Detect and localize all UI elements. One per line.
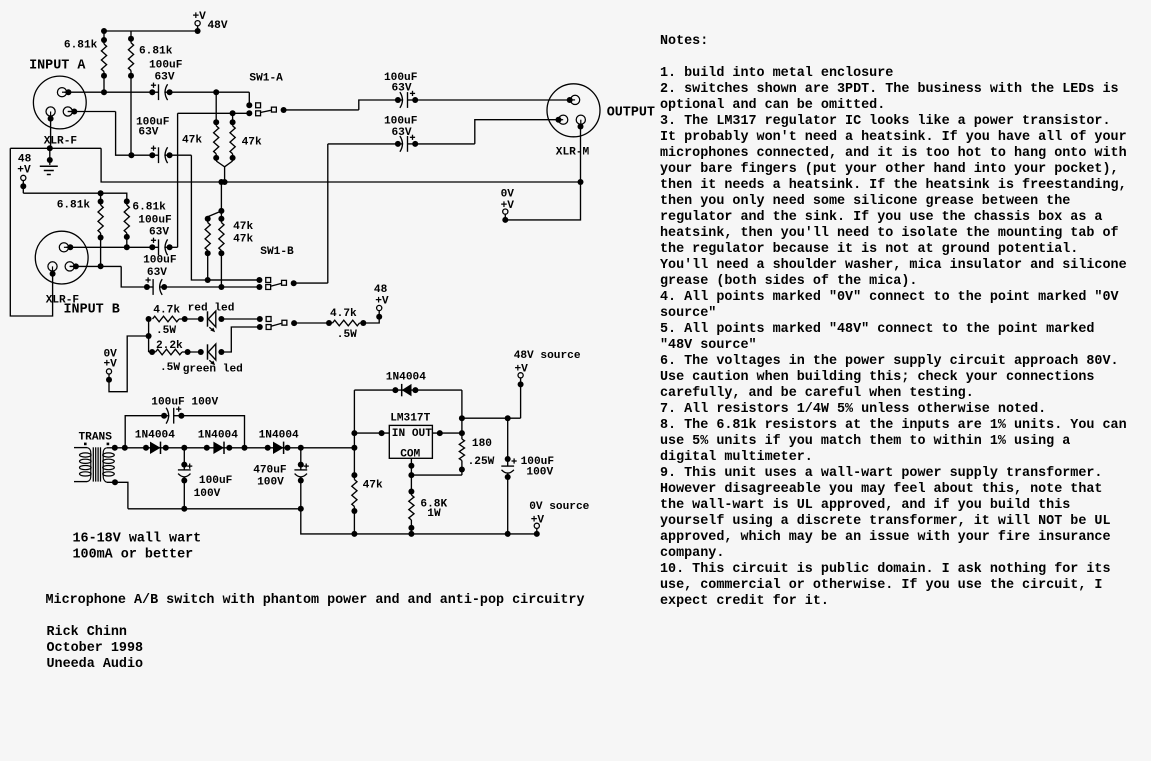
svg-text:grease (both sides of the mica: grease (both sides of the mica).: [660, 274, 917, 289]
svg-text:.5W: .5W: [156, 325, 176, 337]
svg-text:63V: 63V: [149, 226, 169, 238]
svg-text:+V: +V: [193, 11, 207, 23]
svg-text:48V: 48V: [208, 20, 228, 32]
svg-text:100V: 100V: [526, 466, 553, 478]
svg-text:+V: +V: [515, 363, 529, 375]
svg-text:yourself using a discrete tran: yourself using a discrete transformer, i…: [660, 514, 1111, 529]
svg-text:XLR-M: XLR-M: [556, 146, 590, 158]
svg-text:SW1-B: SW1-B: [260, 246, 294, 258]
svg-text:180: 180: [472, 438, 492, 450]
svg-text:LM317T: LM317T: [390, 413, 430, 425]
svg-text:100mA or better: 100mA or better: [73, 548, 194, 563]
svg-text:8. The 6.81k resistors at the: 8. The 6.81k resistors at the inputs are…: [660, 418, 1127, 433]
svg-text:"48V source": "48V source": [660, 338, 757, 353]
svg-text:+V: +V: [375, 296, 389, 308]
svg-text:COM: COM: [400, 448, 420, 460]
svg-text:then you only need some silico: then you only need some silicone grease …: [660, 194, 1070, 209]
svg-text:47k: 47k: [182, 135, 202, 147]
svg-text:4. All points marked "0V" conn: 4. All points marked "0V" connect to the…: [660, 290, 1120, 305]
svg-text:OUTPUT: OUTPUT: [607, 106, 655, 121]
svg-text:your bare fingers (put your ot: your bare fingers (put your other hand i…: [660, 162, 1119, 177]
svg-text:microphones connected, and it: microphones connected, and it is too hot…: [660, 146, 1127, 161]
svg-text:0V source: 0V source: [529, 501, 589, 513]
svg-text:100uF: 100uF: [384, 116, 418, 128]
svg-text:+V: +V: [17, 164, 31, 176]
svg-text:100uF 100V: 100uF 100V: [151, 397, 218, 409]
svg-text:48V source: 48V source: [514, 350, 581, 362]
svg-text:optional and can be omitted.: optional and can be omitted.: [660, 98, 885, 113]
svg-text:Uneeda Audio: Uneeda Audio: [47, 657, 144, 672]
svg-text:source": source": [660, 306, 716, 321]
svg-text:TRANS: TRANS: [79, 431, 113, 443]
svg-text:1N4004: 1N4004: [198, 429, 238, 441]
svg-text:5. All points marked "48V" con: 5. All points marked "48V" connect to th…: [660, 322, 1094, 337]
svg-text:Microphone A/B switch with pha: Microphone A/B switch with phantom power…: [46, 593, 585, 608]
svg-text:.5W: .5W: [160, 362, 180, 374]
svg-text:100uF: 100uF: [199, 475, 233, 487]
svg-text:6.81k: 6.81k: [64, 39, 98, 51]
svg-text:6.81k: 6.81k: [139, 46, 173, 58]
svg-text:47k: 47k: [233, 234, 253, 246]
svg-text:4.7k: 4.7k: [330, 308, 357, 320]
svg-text:0V: 0V: [501, 189, 515, 201]
svg-text:green led: green led: [183, 364, 243, 376]
svg-text:the regulator because it is no: the regulator because it is not at groun…: [660, 242, 1078, 257]
svg-text:INPUT A: INPUT A: [29, 58, 86, 73]
svg-text:100V: 100V: [257, 476, 284, 488]
svg-text:regulator and the sink. If you: regulator and the sink. If you use the c…: [660, 210, 1102, 225]
svg-text:6.81k: 6.81k: [132, 201, 166, 213]
svg-text:63V: 63V: [147, 267, 167, 279]
svg-text:digital multimeter.: digital multimeter.: [660, 450, 813, 465]
svg-text:heatsink, then you'll need to: heatsink, then you'll need to isolate th…: [660, 226, 1119, 241]
svg-text:100uF: 100uF: [149, 60, 183, 72]
svg-text:SW1-A: SW1-A: [249, 73, 283, 85]
svg-text:approved, which may be an issu: approved, which may be an issue with you…: [660, 530, 1111, 545]
svg-text:47k: 47k: [242, 136, 262, 148]
svg-text:2. switches shown are 3PDT. Th: 2. switches shown are 3PDT. The business…: [660, 82, 1119, 97]
svg-text:then it needs a heatsink. If t: then it needs a heatsink. If the heatsin…: [660, 178, 1127, 193]
svg-text:Use caution when building this: Use caution when building this; check yo…: [660, 370, 1094, 385]
svg-text:47k: 47k: [363, 479, 383, 491]
svg-text:XLR-F: XLR-F: [44, 135, 78, 147]
svg-text:1. build into metal enclosure: 1. build into metal enclosure: [660, 66, 893, 81]
svg-text:It probably won't need a heats: It probably won't need a heatsink. If yo…: [660, 130, 1127, 145]
svg-text:+V: +V: [501, 200, 515, 212]
svg-text:47k: 47k: [233, 221, 253, 233]
svg-text:48: 48: [374, 284, 388, 296]
svg-text:1N4004: 1N4004: [135, 429, 175, 441]
svg-text:7. All resistors 1/4W 5% unles: 7. All resistors 1/4W 5% unless otherwis…: [660, 402, 1046, 417]
svg-text:red led: red led: [188, 302, 235, 314]
svg-text:carefully, and be careful when: carefully, and be careful when testing.: [660, 386, 974, 401]
svg-text:2.2k: 2.2k: [156, 340, 183, 352]
svg-text:1N4004: 1N4004: [386, 371, 426, 383]
svg-text:100uF: 100uF: [143, 255, 177, 267]
svg-text:use, commercial or otherwise.: use, commercial or otherwise. If you use…: [660, 578, 1102, 593]
svg-text:63V: 63V: [392, 127, 412, 139]
svg-text:1N4004: 1N4004: [259, 429, 299, 441]
svg-text:4.7k: 4.7k: [153, 305, 180, 317]
svg-text:6.81k: 6.81k: [57, 199, 91, 211]
svg-text:9. This unit uses a wall-wart: 9. This unit uses a wall-wart power supp…: [660, 466, 1102, 481]
svg-text:63V: 63V: [392, 83, 412, 95]
svg-text:3. The LM317 regulator IC look: 3. The LM317 regulator IC looks like a p…: [660, 114, 1111, 129]
svg-text:the wall-wart is UL approved,: the wall-wart is UL approved, and if you…: [660, 498, 1070, 513]
svg-text:63V: 63V: [155, 72, 175, 84]
svg-text:IN OUT: IN OUT: [392, 428, 432, 440]
svg-text:Notes:: Notes:: [660, 34, 708, 49]
svg-text:+V: +V: [531, 515, 545, 527]
svg-text:.25W: .25W: [468, 456, 495, 468]
svg-text:100uF: 100uF: [138, 214, 172, 226]
svg-text:company.: company.: [660, 546, 724, 561]
svg-text:However disagreeable you may f: However disagreeable you may feel about …: [660, 482, 1102, 497]
svg-text:6. The voltages in the power s: 6. The voltages in the power supply circ…: [660, 354, 1119, 369]
svg-text:63V: 63V: [138, 126, 158, 138]
svg-text:470uF: 470uF: [253, 464, 287, 476]
svg-text:1W: 1W: [427, 508, 441, 520]
svg-text:expect credit for it.: expect credit for it.: [660, 594, 829, 609]
svg-text:100V: 100V: [194, 488, 221, 500]
svg-text:+V: +V: [104, 358, 118, 370]
svg-text:16-18V wall wart: 16-18V wall wart: [73, 532, 202, 547]
svg-text:Rick Chinn: Rick Chinn: [47, 625, 127, 640]
svg-text:You'll need a shoulder washer,: You'll need a shoulder washer, mica insu…: [660, 258, 1127, 273]
svg-text:10. This circuit is public dom: 10. This circuit is public domain. I ask…: [660, 562, 1111, 577]
svg-text:use 5% units if you match them: use 5% units if you match them to within…: [660, 434, 1070, 449]
svg-text:INPUT B: INPUT B: [64, 303, 120, 318]
svg-text:.5W: .5W: [337, 329, 357, 341]
svg-text:October 1998: October 1998: [47, 641, 144, 656]
